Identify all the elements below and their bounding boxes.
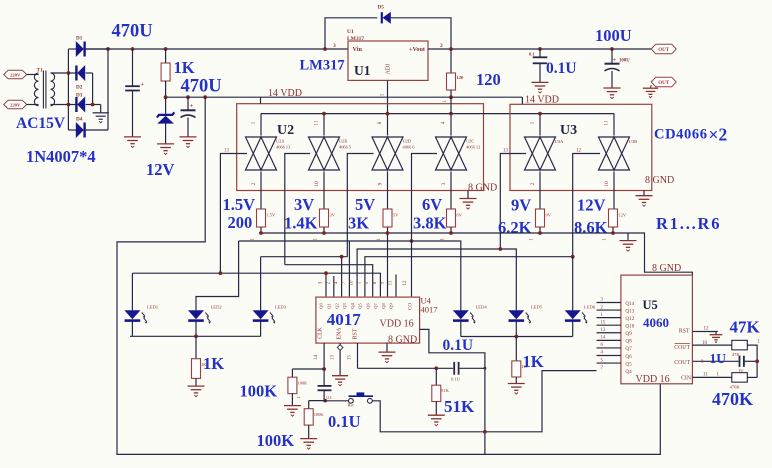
resistor 51K (435, 368, 437, 385)
svg-text:Q13: Q13 (625, 308, 634, 314)
svg-text:220V: 220V (10, 102, 21, 107)
svg-text:U1: U1 (354, 63, 371, 78)
svg-text:120: 120 (457, 75, 465, 80)
wire 47K to riser (747, 345, 757, 377)
svg-text:100K: 100K (240, 382, 278, 401)
svg-text:100K: 100K (298, 381, 309, 386)
svg-text:Q0: Q0 (319, 302, 324, 308)
svg-text:10: 10 (702, 341, 708, 346)
wire net1 Q-LED1 (132, 273, 380, 296)
wire 120-to-switch4 vertical (450, 97, 452, 113)
wire bridge left vertical (67, 49, 69, 130)
svg-text:10: 10 (604, 181, 610, 187)
svg-text:4066 12: 4066 12 (466, 145, 480, 150)
svg-text:LM317: LM317 (347, 36, 364, 42)
svg-text:U2A: U2A (276, 139, 285, 144)
svg-text:14 VDD: 14 VDD (268, 88, 302, 99)
wire net3 stub (341, 257, 343, 297)
ground C1 (124, 137, 141, 148)
svg-text:6V: 6V (457, 213, 463, 218)
svg-text:0.1U: 0.1U (443, 337, 474, 354)
wire U2 pin14 stub (260, 97, 262, 104)
wire LED rail left (130, 335, 261, 337)
wire net5 Q-LED5 (357, 249, 516, 310)
svg-text:8 GND: 8 GND (652, 263, 681, 274)
wire R bottom lead x324 (323, 227, 325, 233)
capacitor 0.1U output (538, 47, 542, 51)
zener diode 12V (165, 97, 167, 114)
svg-text:1: 1 (530, 121, 536, 124)
svg-text:D1: D1 (76, 36, 83, 42)
svg-text:U3B: U3B (629, 139, 638, 144)
wire U3 pin14 stub (521, 97, 523, 104)
svg-text:LED3: LED3 (275, 304, 287, 309)
capacitor C1 470U (131, 47, 135, 51)
svg-text:U3: U3 (560, 123, 577, 138)
U5 Q14 pin 3 (597, 302, 621, 304)
svg-text:1: 1 (380, 93, 386, 96)
svg-text:8: 8 (377, 121, 383, 124)
capacitor 100U output (610, 47, 614, 51)
svg-text:Q5: Q5 (625, 361, 632, 367)
resistor 6.2K body (536, 209, 545, 227)
ground U5 RST (710, 335, 723, 343)
wire net2 ctl bus (285, 265, 373, 297)
svg-text:1.5V: 1.5V (223, 195, 256, 214)
svg-text:1: 1 (251, 121, 257, 124)
svg-text:13: 13 (331, 355, 336, 361)
node D3 cathode junction (91, 103, 95, 107)
ground 100U (604, 88, 621, 99)
ground 51K (428, 415, 445, 426)
svg-text:0.1U: 0.1U (546, 60, 577, 77)
resistor 1K right (515, 337, 517, 361)
wire U4 pin16 route (420, 329, 485, 454)
ground ENA (332, 376, 348, 386)
svg-text:100U: 100U (595, 26, 632, 45)
wire LED rail right (461, 336, 573, 338)
svg-text:+Vout: +Vout (409, 46, 426, 53)
wire R bottom lead x540 (539, 227, 541, 233)
svg-text:D5: D5 (378, 5, 385, 11)
svg-text:1K: 1K (203, 354, 224, 373)
svg-text:COUT: COUT (674, 345, 690, 351)
svg-text:3K: 3K (348, 214, 369, 233)
node ctl U2A join (219, 271, 223, 275)
svg-text:470K: 470K (712, 389, 753, 409)
svg-text:47K: 47K (730, 318, 761, 337)
node secondary-top junction (67, 71, 71, 75)
svg-text:OUT: OUT (658, 81, 670, 86)
wire D5 bypass loop (325, 18, 377, 49)
resistor 3.8K body (447, 209, 456, 227)
svg-text:Q4: Q4 (625, 369, 632, 375)
svg-text:LED1: LED1 (147, 304, 159, 309)
svg-text:CO: CO (407, 303, 413, 310)
ENA diamond (337, 345, 343, 351)
svg-text:8.6K: 8.6K (574, 218, 608, 237)
ctl U2B pin5 (285, 154, 310, 265)
LED LED2 (188, 310, 204, 319)
ground 1K right (508, 384, 525, 395)
switch U2C bottom stub (450, 172, 452, 210)
switch U2A top stub (260, 114, 262, 136)
svg-text:Q8: Q8 (381, 302, 386, 308)
ground OUT2 (643, 88, 658, 98)
svg-text:14: 14 (601, 336, 606, 341)
svg-text:LED2: LED2 (211, 304, 223, 309)
svg-text:4066 13: 4066 13 (276, 145, 291, 150)
svg-text:4066 5: 4066 5 (339, 145, 352, 150)
ctl U3B pin12 (573, 154, 600, 258)
resistor 1K left (195, 336, 197, 358)
wire pin15 line (358, 367, 454, 369)
svg-text:Q10: Q10 (625, 324, 634, 330)
connector 220V input 1 (4, 70, 27, 79)
wire 470K to riser (747, 376, 757, 378)
wire secondary bottom lead (51, 104, 69, 106)
node bridge output (106, 47, 110, 51)
wire bus gnd stub (627, 233, 629, 240)
svg-text:100K: 100K (314, 412, 325, 417)
ctl U2C pin12 (412, 154, 438, 297)
ground U2 (460, 199, 477, 210)
node LED rail right 1K (514, 335, 518, 339)
wire cap to VDD riser (460, 367, 485, 369)
svg-text:0.1: 0.1 (327, 395, 333, 400)
wire LED2 riser (196, 241, 239, 310)
switch U2D top stub (387, 114, 389, 136)
switch U3B top stub (613, 114, 615, 136)
U5 Q6 pin 4 (597, 354, 621, 356)
ground 100K first (284, 406, 301, 417)
wire VDD loop down-left (117, 97, 660, 454)
svg-text:10: 10 (350, 280, 355, 286)
svg-text:3: 3 (441, 182, 447, 185)
svg-text:4017: 4017 (327, 310, 362, 329)
svg-text:3: 3 (333, 43, 336, 49)
wire node to 100K2 (309, 400, 325, 402)
svg-text:LED5: LED5 (531, 304, 543, 309)
svg-text:Q5: Q5 (358, 302, 363, 308)
node clk-cap bottom (323, 399, 327, 403)
ctl U3A pin13 (500, 154, 526, 250)
svg-text:4017: 4017 (421, 305, 438, 315)
node zener junction (164, 95, 168, 99)
svg-text:U1: U1 (347, 29, 354, 35)
svg-text:11: 11 (314, 120, 320, 126)
svg-text:U2C: U2C (466, 139, 474, 144)
node pin16-button cross (483, 430, 487, 434)
resistor 3K body (383, 209, 392, 227)
svg-text:ENA: ENA (337, 327, 343, 340)
svg-text:+: + (190, 104, 194, 110)
svg-text:11: 11 (604, 120, 610, 126)
svg-text:RST: RST (353, 328, 359, 339)
svg-text:5V: 5V (393, 213, 399, 218)
LED LED4 (453, 310, 469, 319)
resistor 1.4K body (320, 209, 329, 227)
transformer T1 (34, 73, 38, 106)
ground 100K second (300, 439, 317, 450)
wire D5 to output (391, 18, 451, 49)
svg-text:LED6: LED6 (584, 304, 596, 309)
svg-text:Q9: Q9 (625, 331, 632, 337)
svg-text:9V: 9V (546, 213, 552, 218)
svg-text:470U: 470U (181, 77, 222, 97)
switch U2C bowtie (436, 137, 467, 170)
switch U3A top stub (539, 114, 541, 136)
svg-text:+: + (613, 58, 617, 64)
svg-text:12V: 12V (619, 213, 627, 218)
svg-text:CIN: CIN (681, 376, 692, 382)
ground zener (157, 144, 174, 155)
node CLK 100K junction (322, 367, 326, 371)
ground bus (620, 241, 637, 252)
svg-text:1U: 1U (710, 351, 727, 366)
node ctl U3A join (498, 247, 502, 251)
wire secondary top lead (51, 72, 69, 74)
ground U4 (379, 352, 396, 363)
svg-text:1K: 1K (523, 352, 544, 371)
wire Q8 stub (395, 275, 397, 297)
node 51K top (434, 366, 438, 370)
svg-text:U2D: U2D (403, 139, 412, 144)
ground bridge reference (93, 113, 109, 123)
svg-text:220V: 220V (10, 72, 21, 77)
svg-text:13: 13 (224, 149, 230, 154)
svg-text:LED4: LED4 (476, 304, 488, 309)
svg-text:+: + (141, 82, 145, 88)
op-amp U1 LM317 box (348, 41, 428, 80)
wire Q0 stub (325, 273, 327, 296)
wire button right (372, 371, 596, 432)
svg-text:VDD 16: VDD 16 (636, 374, 670, 385)
svg-text:470U: 470U (112, 22, 153, 42)
svg-text:11: 11 (389, 280, 394, 285)
wire output line (428, 48, 651, 50)
wire U4 gnd stub (386, 343, 388, 352)
svg-text:8 GND: 8 GND (388, 335, 417, 346)
capacitor 0.1U series pin15 (453, 362, 455, 375)
svg-text:3V: 3V (330, 213, 336, 218)
wire R bottom lead x261 (260, 227, 262, 233)
wire D2-D3 right vertical (92, 73, 94, 105)
svg-text:0.1U: 0.1U (451, 376, 461, 381)
ctl U2D pin6 (347, 154, 373, 257)
svg-text:U2B: U2B (339, 139, 347, 144)
U5 Q5 pin 5 (597, 362, 621, 364)
svg-text:8 GND: 8 GND (468, 183, 497, 194)
ground 0.1U output (532, 82, 549, 93)
wire LED1 riser (131, 273, 133, 310)
svg-text:1.4K: 1.4K (284, 214, 318, 233)
wire cap to riser (744, 360, 757, 362)
switch U2B top stub (323, 114, 325, 136)
svg-text:U3A: U3A (555, 139, 565, 144)
U5 Q13 pin 2 (597, 309, 621, 311)
LED LED6 (565, 310, 581, 319)
switch U2D bowtie (372, 137, 403, 170)
wire LED4 cathode (460, 322, 462, 337)
wire Q3 stub (348, 241, 350, 296)
svg-text:CLK: CLK (318, 326, 324, 338)
U5 Q8 pin 14 (597, 339, 621, 341)
U5 Q12 pin 1 (597, 317, 621, 319)
resistor 1K top (164, 47, 168, 51)
svg-text:×2: ×2 (709, 125, 728, 145)
svg-text:Q9: Q9 (389, 302, 394, 308)
resistor 47K (732, 340, 748, 350)
node bus U3A (538, 112, 542, 116)
svg-text:12V: 12V (577, 196, 606, 215)
svg-text:Q6: Q6 (625, 354, 632, 360)
svg-text:15: 15 (601, 320, 606, 325)
ground 1K left (188, 386, 205, 397)
svg-text:Q7: Q7 (625, 346, 632, 352)
svg-text:13: 13 (503, 149, 509, 154)
node bus U2C (449, 112, 453, 116)
wire OUT2 to ground (650, 85, 653, 88)
resistor 470K (732, 373, 748, 383)
svg-text:4060: 4060 (643, 315, 669, 330)
resistor 8.6K body (609, 209, 618, 227)
svg-text:12: 12 (704, 327, 710, 332)
svg-text:VDD 16: VDD 16 (380, 319, 414, 330)
svg-text:120: 120 (476, 70, 501, 89)
svg-text:OUT: OUT (658, 48, 670, 53)
node bus U2B (322, 112, 326, 116)
svg-text:Q1: Q1 (327, 302, 332, 308)
switch U2D bottom stub (387, 172, 389, 210)
resistor 100K first (288, 377, 297, 393)
wire primary bottom lead (27, 104, 39, 106)
capacitor 1U (739, 356, 741, 367)
wire net3 LED3 (261, 256, 348, 258)
svg-text:Q8: Q8 (625, 339, 632, 345)
svg-text:9V: 9V (511, 196, 531, 215)
svg-text:1.5V: 1.5V (267, 213, 276, 218)
svg-text:Q4: Q4 (350, 302, 355, 308)
wire net4 LED2-LED4 bus (239, 241, 461, 310)
svg-text:3.8K: 3.8K (413, 214, 447, 233)
svg-text:RST: RST (679, 329, 690, 335)
svg-text:100U: 100U (619, 59, 630, 64)
switch U3A bottom stub (539, 172, 541, 210)
svg-text:ADJ: ADJ (386, 63, 392, 75)
svg-text:Q6: Q6 (365, 302, 370, 308)
svg-text:Q2: Q2 (334, 302, 339, 308)
svg-text:100K: 100K (257, 431, 295, 450)
svg-text:12: 12 (403, 280, 408, 286)
ctl U2A pin13 (220, 154, 247, 274)
svg-text:11: 11 (703, 373, 708, 378)
svg-text:2: 2 (530, 182, 536, 185)
U5 Q7 pin 6 (597, 347, 621, 349)
svg-text:1K: 1K (174, 58, 195, 77)
connector OUT 2 (651, 77, 676, 87)
wire U3 gnd stub (643, 191, 645, 196)
wire 12V VDD rail (166, 96, 523, 98)
wire R bottom lead x451 (450, 227, 452, 233)
ground C2 (180, 137, 197, 148)
svg-text:14: 14 (314, 355, 319, 361)
wire net6 Q-LED6 (365, 257, 573, 297)
switch U2B bottom stub (323, 172, 325, 210)
switch U3A bowtie (525, 137, 556, 170)
svg-text:13: 13 (601, 328, 606, 333)
wire ENA stub (339, 343, 341, 375)
node net6 join (571, 255, 575, 259)
IC U2 CD4066 box (237, 104, 484, 191)
wire switch-top bus (261, 113, 614, 115)
svg-text:T1: T1 (37, 67, 43, 73)
pushbutton RST (349, 398, 354, 403)
svg-text:12V: 12V (146, 160, 175, 179)
svg-text:2: 2 (440, 43, 443, 49)
wire LED1 cathode (131, 322, 133, 337)
LED LED5 (508, 310, 524, 319)
IC U5 4060 box (621, 275, 693, 384)
svg-text:U5: U5 (643, 298, 658, 312)
svg-text:8 GND: 8 GND (645, 175, 674, 186)
svg-text:12: 12 (576, 149, 582, 154)
svg-text:2: 2 (251, 182, 257, 185)
capacitor CLK series 0.1 (318, 385, 332, 387)
resistor 200 body (257, 209, 266, 227)
wire ADJ down (387, 80, 389, 113)
LED LED3 (253, 310, 269, 319)
wire LED6 cathode (572, 322, 574, 337)
svg-text:Vin: Vin (353, 46, 363, 53)
IC U3 CD4066 box (510, 104, 652, 190)
svg-text:4: 4 (441, 121, 447, 124)
svg-text:15: 15 (348, 355, 353, 361)
connector 220V input 2 (4, 100, 27, 109)
U5 Q10 pin 15 (597, 324, 621, 326)
switch U2A bowtie (246, 137, 277, 170)
svg-text:10: 10 (314, 181, 320, 187)
svg-text:0.1: 0.1 (529, 52, 535, 57)
wire D3 to ground (100, 105, 102, 113)
node VDD left corner (203, 95, 207, 99)
svg-text:0.1U: 0.1U (328, 412, 361, 431)
resistor 120 (449, 47, 453, 51)
wire LED6 riser (572, 257, 574, 311)
U5 Q9 pin 13 (597, 332, 621, 334)
node secondary-bottom junction (67, 103, 71, 107)
wire 100K1 branch (292, 368, 324, 370)
wire CLK down (323, 343, 325, 386)
svg-text:3V: 3V (294, 195, 314, 214)
svg-text:5V: 5V (355, 195, 375, 214)
wire LED3 riser (260, 257, 262, 311)
svg-text:U2: U2 (277, 123, 294, 138)
switch U3B bottom stub (613, 172, 615, 210)
node LED rail left 1K (194, 334, 198, 338)
wire Q1 stub (333, 276, 335, 296)
svg-text:CD4066: CD4066 (654, 127, 708, 143)
connector OUT 1 (651, 44, 676, 54)
svg-text:Rst: Rst (348, 402, 355, 407)
wire bridge right vertical (107, 49, 109, 130)
svg-text:D2: D2 (76, 85, 83, 91)
svg-text:R1...R6: R1...R6 (656, 214, 721, 233)
svg-text:1N4007*4: 1N4007*4 (26, 147, 96, 166)
svg-text:COUT: COUT (674, 360, 690, 366)
wire LED2 cathode (195, 322, 197, 337)
wire node to button (325, 400, 348, 402)
